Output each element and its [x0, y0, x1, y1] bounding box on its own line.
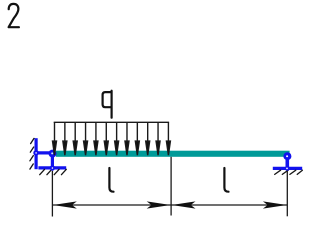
- left support horizontal link: [36, 151, 52, 154]
- dimension line right span: [171, 204, 287, 206]
- right support ground line: [273, 167, 302, 170]
- dimension line left span: [52, 204, 171, 206]
- length label l left: [109, 168, 113, 192]
- right support link: [285, 156, 289, 169]
- dimension arrow right outer: [263, 201, 287, 208]
- right support pin: [283, 152, 291, 160]
- figure number 2: [9, 4, 19, 27]
- left wall hatching: [30, 138, 34, 169]
- left support ground line: [38, 166, 66, 169]
- right ground hatching: [275, 170, 303, 174]
- middle extension line: [170, 157, 172, 216]
- beam: [56, 151, 290, 157]
- left support vertical link: [51, 153, 54, 168]
- left ground hatching: [40, 169, 67, 174]
- right extension line: [286, 171, 288, 217]
- dimension arrow left outer: [53, 201, 77, 208]
- left lower pin: [50, 165, 55, 170]
- left support wall: [34, 138, 37, 169]
- right lower pin: [285, 166, 290, 171]
- left beam pin: [49, 150, 57, 158]
- left wall pin: [33, 150, 39, 156]
- dimension arrow right inner: [172, 201, 196, 208]
- distributed load top line: [54, 121, 169, 123]
- dimension arrow left inner: [147, 201, 171, 208]
- left extension line: [51, 171, 53, 217]
- load label q: [103, 91, 112, 118]
- distributed load arrows: [53, 122, 171, 155]
- length label l right: [224, 168, 228, 192]
